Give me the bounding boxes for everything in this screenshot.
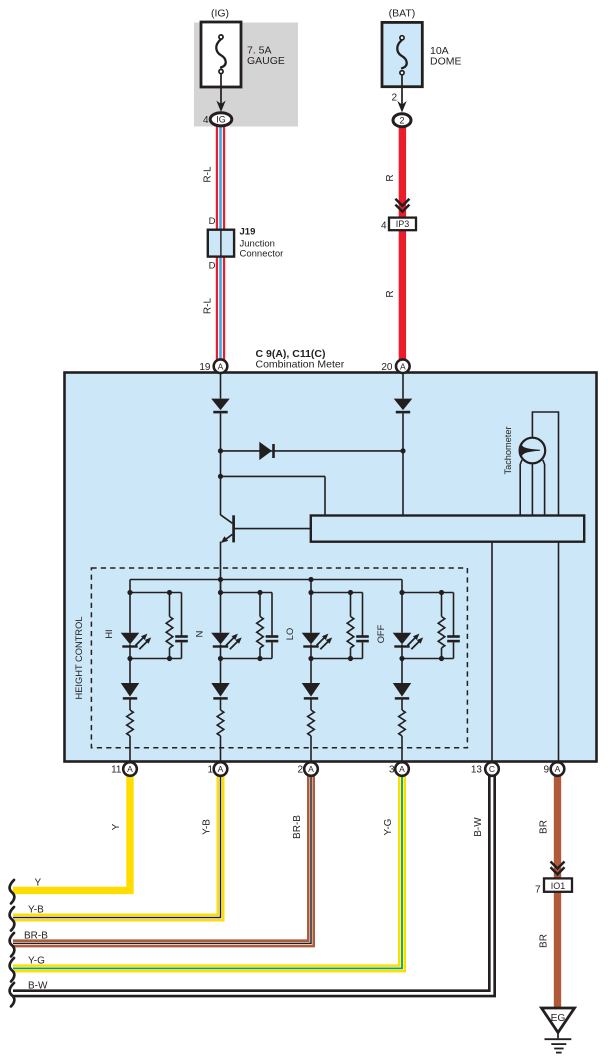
svg-text:B-W: B-W (28, 981, 48, 992)
svg-text:N: N (195, 631, 205, 638)
svg-text:A: A (400, 361, 406, 371)
svg-text:B-W: B-W (473, 817, 484, 837)
svg-text:D: D (209, 216, 216, 227)
svg-text:Connector: Connector (240, 249, 284, 260)
svg-text:R: R (385, 290, 396, 297)
svg-text:4: 4 (381, 221, 387, 232)
svg-text:IO1: IO1 (551, 881, 566, 891)
svg-text:C: C (489, 764, 495, 774)
svg-text:HI: HI (104, 629, 114, 638)
svg-text:D: D (209, 261, 216, 272)
svg-text:R: R (385, 174, 396, 181)
svg-text:4: 4 (203, 115, 209, 126)
svg-text:19: 19 (199, 362, 211, 373)
svg-text:HEIGHT CONTROL: HEIGHT CONTROL (74, 617, 84, 700)
svg-text:2: 2 (297, 765, 303, 776)
svg-text:(IG): (IG) (211, 8, 229, 20)
svg-text:Y: Y (35, 878, 42, 889)
svg-text:Y-B: Y-B (202, 819, 213, 835)
svg-text:7: 7 (535, 884, 541, 895)
svg-text:A: A (218, 361, 224, 371)
svg-text:BR: BR (539, 820, 550, 834)
svg-text:Y-G: Y-G (28, 956, 45, 967)
svg-text:Combination Meter: Combination Meter (256, 358, 345, 370)
svg-text:DOME: DOME (430, 55, 462, 67)
svg-text:IG: IG (216, 115, 226, 125)
svg-text:R-L: R-L (203, 298, 214, 315)
svg-text:1: 1 (207, 765, 213, 776)
svg-text:9: 9 (543, 765, 549, 776)
svg-text:EG: EG (551, 1013, 566, 1024)
svg-text:Tachometer: Tachometer (503, 427, 513, 475)
svg-text:13: 13 (471, 765, 483, 776)
svg-text:2: 2 (399, 116, 404, 126)
svg-text:Y: Y (111, 823, 122, 830)
svg-text:BR-B: BR-B (292, 815, 303, 839)
svg-text:(BAT): (BAT) (389, 8, 416, 20)
svg-text:A: A (127, 764, 133, 774)
svg-text:20: 20 (381, 362, 393, 373)
svg-text:2: 2 (391, 93, 397, 104)
svg-text:A: A (555, 764, 561, 774)
svg-text:LO: LO (285, 628, 295, 640)
svg-text:A: A (218, 764, 224, 774)
svg-text:BR: BR (539, 934, 550, 948)
svg-text:OFF: OFF (376, 624, 386, 643)
svg-text:J19: J19 (240, 227, 256, 238)
svg-text:Y-G: Y-G (383, 818, 394, 835)
svg-text:A: A (308, 764, 314, 774)
svg-text:Y-B: Y-B (28, 905, 44, 916)
svg-text:GAUGE: GAUGE (247, 55, 285, 67)
svg-text:A: A (399, 764, 405, 774)
svg-text:11: 11 (111, 765, 122, 776)
svg-text:R-L: R-L (203, 166, 214, 183)
svg-text:BR-B: BR-B (24, 931, 48, 942)
svg-text:IP3: IP3 (396, 219, 410, 229)
svg-text:3: 3 (389, 765, 395, 776)
